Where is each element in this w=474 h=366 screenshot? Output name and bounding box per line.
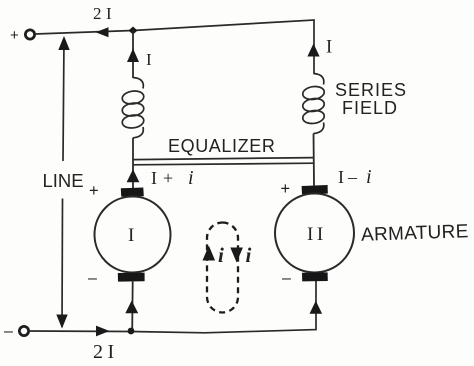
arrow I+i (into armature I) [127, 169, 140, 182]
svg-text:I: I [128, 225, 134, 246]
svg-text:i: i [366, 166, 372, 188]
wire top right (node A to right corner) [133, 20, 314, 74]
wire top left (terminal to node A) [35, 31, 133, 35]
svg-text:I: I [151, 168, 157, 188]
node B (bottom junction) [128, 328, 135, 335]
arrow I left branch [127, 49, 139, 63]
brush bottom armature I [118, 273, 145, 282]
wire left branch (node A to series field L1) [132, 31, 134, 79]
svg-text:2I: 2I [93, 341, 119, 363]
arrow i up (left side of loop) [203, 246, 216, 261]
arrow 2I left (current arrow on top wire) [96, 27, 109, 37]
svg-text:LINE: LINE [43, 170, 84, 191]
wire armature I to bottom bus [131, 282, 134, 332]
arrow I right branch [307, 44, 319, 57]
brush top armature I [121, 188, 144, 197]
svg-text:2I: 2I [93, 4, 116, 23]
equalizer bus (double line) [133, 158, 314, 160]
arrow i down (right side of loop) [230, 248, 243, 263]
svg-text:+: + [163, 168, 173, 188]
svg-text:+: + [89, 182, 99, 200]
node A (top junction) [129, 27, 138, 35]
inductor L2 (right series field coil) [302, 74, 325, 134]
svg-text:FIELD: FIELD [342, 98, 398, 118]
terminal + (positive line terminal) [25, 30, 34, 39]
arrow 2I right (bottom bus) [96, 326, 110, 337]
brush top armature II [302, 185, 328, 194]
arrow up into armature II bottom [310, 301, 323, 314]
svg-text:SERIES: SERIES [335, 80, 407, 100]
terminal - (negative line terminal) [19, 326, 28, 335]
svg-text:+: + [281, 180, 291, 198]
wire left coil to brush [132, 138, 134, 188]
svg-text:–: – [282, 270, 291, 287]
svg-text:II: II [307, 224, 327, 245]
svg-text:–: – [347, 167, 358, 187]
svg-text:I: I [338, 167, 344, 187]
brush bottom armature II [302, 272, 328, 281]
svg-text:i: i [218, 243, 224, 267]
arrow up into armature I bottom [125, 301, 138, 314]
svg-text:+: + [10, 27, 19, 44]
wire bottom bus [29, 281, 316, 333]
svg-text:i: i [188, 167, 194, 189]
svg-text:I: I [146, 50, 152, 69]
armature II [275, 194, 354, 273]
svg-text:I: I [326, 38, 332, 58]
svg-text:EQUALIZER: EQUALIZER [168, 136, 275, 156]
LINE dimension arrows [63, 38, 64, 161]
svg-text:i: i [246, 243, 252, 267]
armature I [95, 197, 171, 273]
svg-text:ARMATURE: ARMATURE [361, 221, 469, 246]
wire right coil to brush [313, 134, 316, 186]
dashed circulating current loop [207, 223, 238, 313]
inductor L1 (left series field coil) [121, 78, 144, 138]
svg-text:–: – [4, 323, 13, 340]
svg-text:–: – [88, 270, 97, 287]
